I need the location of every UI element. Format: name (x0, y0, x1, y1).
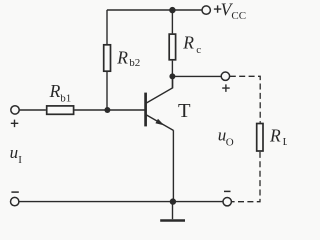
node emitter bottom junction (170, 198, 176, 204)
svg-text:T: T (178, 100, 191, 122)
svg-text:b1: b1 (60, 93, 71, 105)
wire emitter down (172, 130, 174, 201)
wire Rb2 lower lead (106, 72, 108, 110)
transistor T emitter arrow (155, 119, 164, 126)
svg-text:O: O (226, 137, 234, 149)
svg-text:R: R (49, 81, 61, 101)
svg-text:I: I (18, 154, 22, 166)
terminal input plus (11, 106, 19, 114)
wire Rc lower lead to collector (171, 61, 173, 89)
label +Vcc plus (214, 5, 221, 12)
label output plus sign (222, 84, 230, 92)
label input minus sign (11, 191, 18, 193)
label output minus sign (224, 190, 231, 192)
terminal +Vcc (202, 6, 210, 14)
transistor T emitter diagonal (146, 115, 173, 130)
resistor RL (257, 124, 263, 152)
resistor Rb1 (47, 106, 74, 114)
svg-text:CC: CC (231, 10, 246, 22)
transistor T collector diagonal (146, 76, 172, 103)
wire dashed output + to RL (230, 76, 260, 123)
wire bottom rail (19, 201, 223, 203)
svg-text:R: R (116, 47, 128, 67)
wire top rail (107, 9, 202, 11)
wire Rb2 upper lead (106, 10, 108, 44)
terminal output plus (221, 72, 229, 80)
svg-text:b2: b2 (129, 57, 140, 69)
resistor Rc (169, 34, 175, 60)
svg-text:c: c (196, 44, 201, 56)
wire dashed RL to output minus (232, 152, 260, 202)
svg-text:R: R (182, 32, 194, 52)
wire Rb1 to base (74, 109, 144, 111)
transistor T base bar (144, 93, 147, 127)
label input plus sign (11, 120, 18, 128)
wire Rc upper lead (171, 10, 173, 33)
terminal input minus (11, 197, 19, 205)
node collector (169, 73, 175, 79)
svg-text:L: L (283, 136, 287, 148)
ground (172, 202, 174, 220)
resistor Rb2 (104, 45, 111, 71)
svg-text:R: R (269, 125, 281, 145)
wire input to Rb1 (19, 109, 46, 111)
wire collector node to output + (172, 75, 221, 77)
svg-text:u: u (10, 143, 19, 162)
terminal output minus (223, 198, 231, 206)
node base junction (104, 107, 110, 113)
node top rail junction (169, 7, 175, 13)
